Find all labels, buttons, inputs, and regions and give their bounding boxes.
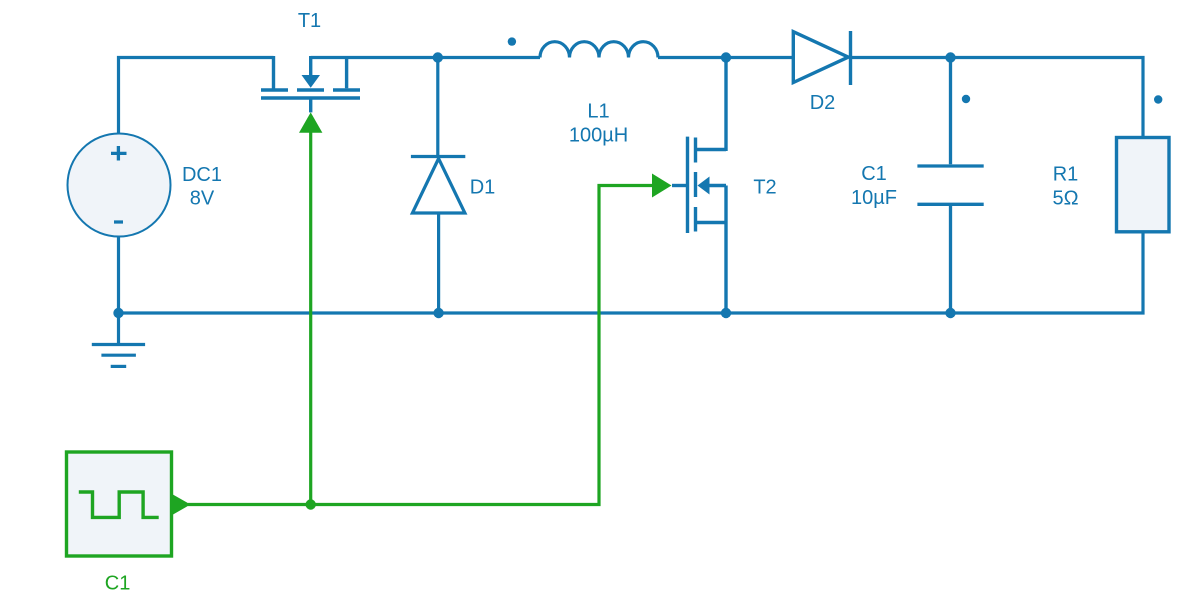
probe dot at R1 top <box>1154 95 1162 103</box>
diode D1 <box>411 58 465 314</box>
green junction node <box>306 499 316 509</box>
svg-text:T1: T1 <box>298 10 321 32</box>
wire D2 cathode to output node to R1 corner <box>851 58 1144 138</box>
wire L1 to T2 node to D2 anode <box>658 56 794 59</box>
svg-text:T2: T2 <box>753 176 776 198</box>
probe dot at output <box>962 95 970 103</box>
inductor L1 <box>540 42 658 58</box>
wire bottom rail <box>119 232 1144 313</box>
svg-text:10µF: 10µF <box>851 187 897 209</box>
svg-text:DC1: DC1 <box>182 164 222 186</box>
wire T1 source to D1 node to L1 <box>311 56 540 59</box>
junction node at output <box>945 52 955 62</box>
transistor T2 (N-MOSFET, vertical) <box>672 58 726 314</box>
wire top rail from DC1 to T1 drain <box>119 58 274 136</box>
wire DC1 bottom to ground rail <box>117 237 120 314</box>
T1 body arrow <box>302 75 321 88</box>
junction node at D1 bottom <box>433 308 443 318</box>
probe dot at L1 left <box>508 37 516 45</box>
ground <box>92 313 145 366</box>
junction node at T2 drain <box>721 52 731 62</box>
svg-text:C1: C1 <box>105 572 131 594</box>
junction node at T2 source <box>721 308 731 318</box>
svg-text:8V: 8V <box>190 188 215 210</box>
junction node at C1 bottom <box>945 308 955 318</box>
svg-text:C1: C1 <box>861 163 887 185</box>
gate arrow into T2 <box>652 174 672 198</box>
svg-text:D1: D1 <box>470 177 496 199</box>
svg-text:R1: R1 <box>1053 164 1079 186</box>
svg-text:5Ω: 5Ω <box>1052 187 1078 209</box>
svg-text:D2: D2 <box>810 92 836 114</box>
capacitor C1 <box>917 58 983 314</box>
junction node at D1 top <box>433 52 443 62</box>
voltage source DC1 <box>68 134 171 237</box>
svg-text:100µH: 100µH <box>569 125 628 147</box>
T2 body arrow <box>698 177 710 195</box>
junction node at ground <box>113 308 123 318</box>
diode D2 <box>793 31 850 85</box>
svg-text:L1: L1 <box>587 101 609 123</box>
green wire branch to T1 gate <box>309 132 312 505</box>
clock source C1 (green box) <box>67 452 172 556</box>
transistor T1 (P-MOSFET, horizontal) <box>261 56 360 112</box>
resistor R1 <box>1117 138 1170 232</box>
clock output port arrow <box>172 494 191 516</box>
green wire clock to T2 gate <box>188 132 652 505</box>
gate arrow into T1 <box>299 112 322 132</box>
